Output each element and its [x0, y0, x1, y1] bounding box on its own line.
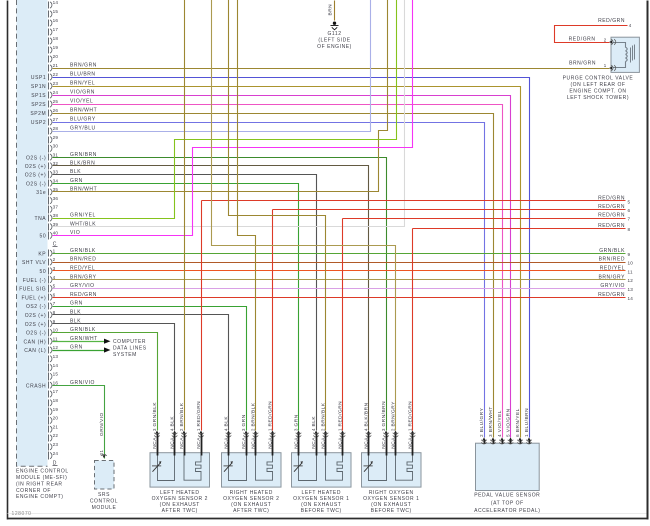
- svg-text:17: 17: [53, 27, 59, 32]
- svg-text:O2S (-): O2S (-): [26, 155, 46, 161]
- svg-text:GRN/VIO: GRN/VIO: [99, 412, 105, 436]
- svg-text:(ON LEFT REAR OF: (ON LEFT REAR OF: [570, 82, 625, 88]
- svg-text:ENGINE COMPT. ON: ENGINE COMPT. ON: [569, 88, 626, 94]
- svg-text:3: 3: [488, 434, 493, 437]
- svg-text:5: 5: [53, 284, 56, 289]
- svg-text:O2S (+): O2S (+): [25, 313, 47, 319]
- svg-text:10: 10: [628, 261, 634, 266]
- svg-text:RED/GRN: RED/GRN: [598, 292, 625, 298]
- svg-text:AFTER TWC): AFTER TWC): [233, 508, 269, 514]
- svg-text:19: 19: [53, 407, 59, 412]
- svg-text:GRY/VIO: GRY/VIO: [600, 283, 625, 289]
- svg-text:RED/GRN: RED/GRN: [598, 204, 625, 210]
- svg-text:NCA: NCA: [294, 437, 300, 449]
- svg-text:15: 15: [53, 372, 59, 377]
- svg-text:2: 2: [321, 428, 326, 431]
- svg-text:KP: KP: [38, 251, 46, 257]
- svg-text:PEDAL VALUE SENSOR: PEDAL VALUE SENSOR: [474, 493, 540, 499]
- svg-text:14: 14: [53, 0, 59, 5]
- svg-text:BEFORE TWC): BEFORE TWC): [371, 508, 412, 514]
- svg-text:15: 15: [53, 9, 59, 14]
- svg-text:GRN: GRN: [70, 345, 83, 351]
- svg-text:31: 31: [53, 152, 59, 157]
- svg-text:11: 11: [53, 336, 58, 341]
- svg-text:18: 18: [53, 398, 59, 403]
- svg-text:40: 40: [53, 231, 59, 236]
- svg-text:GRN/BRN: GRN/BRN: [70, 152, 97, 158]
- svg-text:22: 22: [53, 433, 59, 438]
- svg-text:2: 2: [53, 257, 56, 262]
- svg-text:BRN/YEL: BRN/YEL: [70, 81, 95, 87]
- svg-text:NCA: NCA: [364, 437, 370, 449]
- svg-text:NCA: NCA: [152, 437, 158, 449]
- svg-text:NCA: NCA: [251, 437, 257, 449]
- svg-text:2: 2: [179, 428, 184, 431]
- svg-text:GRN: GRN: [294, 414, 300, 426]
- svg-text:23: 23: [53, 442, 59, 447]
- svg-text:SHT VLV: SHT VLV: [22, 260, 46, 266]
- svg-text:COMPUTER: COMPUTER: [113, 339, 146, 345]
- svg-text:27: 27: [53, 117, 59, 122]
- svg-text:BLK/BRN: BLK/BRN: [364, 402, 370, 426]
- svg-text:12: 12: [628, 278, 634, 283]
- svg-text:4: 4: [364, 428, 369, 431]
- svg-text:BRN/WHT: BRN/WHT: [488, 406, 494, 432]
- svg-text:BEFORE TWC): BEFORE TWC): [301, 508, 342, 514]
- svg-text:NCA: NCA: [224, 437, 230, 449]
- svg-text:USP2: USP2: [31, 120, 46, 126]
- svg-text:MODULE (ME-SFI): MODULE (ME-SFI): [16, 475, 67, 481]
- svg-text:21: 21: [53, 63, 59, 68]
- svg-text:24: 24: [53, 451, 59, 456]
- svg-text:GRN/YEL: GRN/YEL: [70, 213, 96, 219]
- svg-text:BRN/GRY: BRN/GRY: [598, 274, 625, 280]
- svg-text:17: 17: [53, 389, 59, 394]
- svg-text:1: 1: [53, 248, 56, 253]
- svg-text:CORNER OF: CORNER OF: [16, 488, 51, 494]
- svg-text:BRN/BLK: BRN/BLK: [321, 402, 327, 426]
- svg-text:FUEL SIG: FUEL SIG: [19, 287, 46, 293]
- svg-text:BLK: BLK: [311, 416, 317, 427]
- svg-text:VIO/YEL: VIO/YEL: [70, 99, 93, 105]
- svg-text:BLU/GRY: BLU/GRY: [70, 117, 96, 123]
- svg-text:BLU/BRN: BLU/BRN: [70, 72, 96, 78]
- svg-text:FUEL (+): FUEL (+): [22, 295, 47, 301]
- svg-text:4: 4: [311, 428, 316, 431]
- svg-text:19: 19: [53, 45, 59, 50]
- svg-text:BRN/GRN: BRN/GRN: [70, 63, 97, 69]
- svg-text:CAN (L): CAN (L): [24, 348, 46, 354]
- svg-text:SP2M: SP2M: [30, 111, 46, 117]
- svg-text:6: 6: [628, 208, 631, 213]
- svg-text:5: 5: [506, 434, 511, 437]
- svg-text:GRN: GRN: [70, 301, 83, 307]
- svg-text:6: 6: [515, 434, 520, 437]
- svg-text:BLU/GRY: BLU/GRY: [479, 407, 485, 432]
- svg-text:NCA: NCA: [170, 437, 176, 449]
- svg-text:4: 4: [170, 428, 175, 431]
- svg-text:BRN/GRY: BRN/GRY: [391, 401, 397, 427]
- svg-text:23: 23: [53, 81, 59, 86]
- svg-text:NCA: NCA: [268, 437, 274, 449]
- svg-text:13: 13: [53, 354, 59, 359]
- svg-text:NCA: NCA: [241, 437, 247, 449]
- svg-text:GRN/BLK: GRN/BLK: [599, 248, 625, 254]
- svg-text:G112: G112: [327, 31, 341, 37]
- svg-text:21: 21: [53, 424, 59, 429]
- svg-text:NCA: NCA: [321, 437, 327, 449]
- svg-text:NCA: NCA: [391, 437, 397, 449]
- svg-text:12: 12: [53, 345, 59, 350]
- svg-text:RED/GRN: RED/GRN: [196, 401, 202, 427]
- svg-text:RED/GRN: RED/GRN: [569, 36, 596, 42]
- svg-text:NCA: NCA: [381, 437, 387, 449]
- svg-text:16: 16: [53, 380, 59, 385]
- svg-text:RED/YEL: RED/YEL: [600, 266, 625, 272]
- svg-text:5: 5: [628, 199, 631, 204]
- svg-text:ENGINE CONTROL: ENGINE CONTROL: [16, 469, 69, 475]
- svg-text:25: 25: [53, 99, 59, 104]
- svg-text:NCA: NCA: [338, 437, 344, 449]
- svg-text:TNA: TNA: [35, 216, 47, 222]
- svg-text:1: 1: [604, 63, 607, 68]
- svg-text:BLK: BLK: [224, 416, 230, 427]
- svg-text:1: 1: [196, 428, 201, 431]
- svg-text:SP1N: SP1N: [31, 84, 46, 90]
- svg-text:14: 14: [53, 363, 59, 368]
- svg-text:O2S (-): O2S (-): [26, 181, 46, 187]
- svg-text:O2S (-): O2S (-): [26, 331, 46, 337]
- svg-text:RED/GRN: RED/GRN: [598, 213, 625, 219]
- svg-text:36: 36: [53, 196, 59, 201]
- svg-text:18: 18: [53, 36, 59, 41]
- svg-text:22: 22: [53, 72, 59, 77]
- svg-text:BRN/WHT: BRN/WHT: [70, 108, 97, 114]
- svg-text:O2S (+): O2S (+): [25, 164, 47, 170]
- svg-text:7: 7: [628, 217, 631, 222]
- svg-text:1: 1: [524, 434, 529, 437]
- svg-text:1: 1: [408, 428, 413, 431]
- svg-text:BLU/BRN: BLU/BRN: [524, 408, 530, 432]
- svg-text:50: 50: [40, 269, 47, 275]
- svg-text:CAN (H): CAN (H): [23, 339, 46, 345]
- svg-text:SP2S: SP2S: [31, 102, 46, 108]
- svg-text:128070: 128070: [12, 511, 32, 517]
- svg-text:2: 2: [604, 37, 607, 42]
- svg-text:11: 11: [628, 269, 633, 274]
- svg-text:NCA: NCA: [408, 437, 414, 449]
- svg-text:20: 20: [53, 416, 59, 421]
- svg-text:LEFT SHOCK TOWER): LEFT SHOCK TOWER): [567, 95, 629, 101]
- svg-text:10: 10: [53, 328, 59, 333]
- svg-text:20: 20: [53, 54, 59, 59]
- svg-text:OF ENGINE): OF ENGINE): [317, 44, 352, 50]
- svg-text:34: 34: [53, 178, 59, 183]
- svg-text:RED/GRN: RED/GRN: [598, 223, 625, 229]
- svg-text:4: 4: [629, 23, 632, 28]
- svg-text:NCA: NCA: [179, 437, 185, 449]
- svg-text:FUEL (-): FUEL (-): [23, 278, 46, 284]
- svg-text:O2S (+): O2S (+): [25, 322, 47, 328]
- svg-text:O2S (+): O2S (+): [25, 173, 47, 179]
- svg-text:BLK: BLK: [170, 416, 176, 427]
- svg-text:VIO/YEL: VIO/YEL: [497, 410, 503, 432]
- svg-text:28: 28: [53, 126, 59, 131]
- svg-text:BRN/BLK: BRN/BLK: [179, 402, 185, 426]
- svg-text:2: 2: [479, 434, 484, 437]
- svg-text:SRS: SRS: [98, 492, 110, 498]
- svg-text:BRN/BLK: BRN/BLK: [251, 402, 257, 426]
- svg-text:BRN/GRN: BRN/GRN: [569, 61, 596, 67]
- svg-text:30: 30: [53, 144, 59, 149]
- svg-text:PURGE CONTROL VALVE: PURGE CONTROL VALVE: [563, 76, 634, 82]
- svg-text:(LEFT SIDE: (LEFT SIDE: [318, 38, 350, 44]
- svg-text:GRN/BRN: GRN/BRN: [381, 401, 387, 427]
- svg-text:BRN/YEL: BRN/YEL: [515, 408, 521, 432]
- svg-text:(AT TOP OF: (AT TOP OF: [491, 500, 524, 506]
- svg-text:RED/GRN: RED/GRN: [598, 18, 625, 24]
- svg-text:AFTER TWC): AFTER TWC): [162, 508, 198, 514]
- svg-text:NCA: NCA: [311, 437, 317, 449]
- svg-text:2: 2: [391, 428, 396, 431]
- svg-text:RED/GRN: RED/GRN: [408, 401, 414, 427]
- svg-text:29: 29: [53, 135, 59, 140]
- svg-text:3: 3: [294, 428, 299, 431]
- svg-text:8: 8: [628, 227, 631, 232]
- svg-text:1: 1: [268, 428, 273, 431]
- svg-text:13: 13: [628, 287, 634, 292]
- svg-text:31e: 31e: [36, 190, 46, 196]
- svg-text:GRN: GRN: [241, 414, 247, 426]
- svg-text:50: 50: [40, 234, 47, 240]
- svg-text:4: 4: [224, 428, 229, 431]
- svg-text:6: 6: [53, 292, 56, 297]
- svg-text:14: 14: [628, 296, 634, 301]
- svg-text:(IN RIGHT REAR: (IN RIGHT REAR: [16, 481, 63, 487]
- svg-text:USP1: USP1: [31, 75, 46, 81]
- svg-text:RED/GRN: RED/GRN: [268, 401, 274, 427]
- svg-text:RED/GRN: RED/GRN: [338, 401, 344, 427]
- svg-text:4: 4: [497, 434, 502, 437]
- svg-text:VIO/GRN: VIO/GRN: [70, 90, 95, 96]
- svg-text:1: 1: [338, 428, 343, 431]
- svg-text:16: 16: [53, 18, 59, 23]
- svg-text:3: 3: [241, 428, 246, 431]
- svg-text:VIO/GRN: VIO/GRN: [506, 408, 512, 432]
- svg-text:NCA: NCA: [196, 437, 202, 449]
- svg-text:SP1S: SP1S: [31, 93, 46, 99]
- svg-text:BRN/RED: BRN/RED: [70, 257, 96, 263]
- svg-text:9: 9: [628, 252, 631, 257]
- svg-text:DATA LINES: DATA LINES: [113, 346, 147, 352]
- svg-text:24: 24: [53, 90, 59, 95]
- svg-text:SYSTEM: SYSTEM: [113, 352, 137, 358]
- svg-text:CONTROL: CONTROL: [90, 499, 118, 505]
- svg-text:7: 7: [53, 301, 56, 306]
- svg-text:3: 3: [381, 428, 386, 431]
- svg-text:BRN: BRN: [328, 4, 334, 16]
- svg-text:37: 37: [53, 205, 59, 210]
- svg-text:38: 38: [53, 213, 59, 218]
- svg-text:BRN/RED: BRN/RED: [599, 257, 625, 263]
- svg-text:GRY/BLU: GRY/BLU: [70, 126, 96, 132]
- svg-text:RED/GRN: RED/GRN: [598, 196, 625, 202]
- svg-text:2: 2: [251, 428, 256, 431]
- svg-text:ACCELERATOR PEDAL): ACCELERATOR PEDAL): [474, 508, 540, 514]
- svg-text:3: 3: [152, 428, 157, 431]
- svg-text:ENGINE COMPT): ENGINE COMPT): [16, 494, 63, 500]
- svg-text:26: 26: [53, 108, 59, 113]
- svg-text:GRN/BLK: GRN/BLK: [152, 402, 158, 427]
- svg-text:MODULE: MODULE: [92, 505, 117, 511]
- svg-text:CRASH: CRASH: [26, 383, 46, 389]
- svg-text:OS2 (-): OS2 (-): [26, 304, 46, 310]
